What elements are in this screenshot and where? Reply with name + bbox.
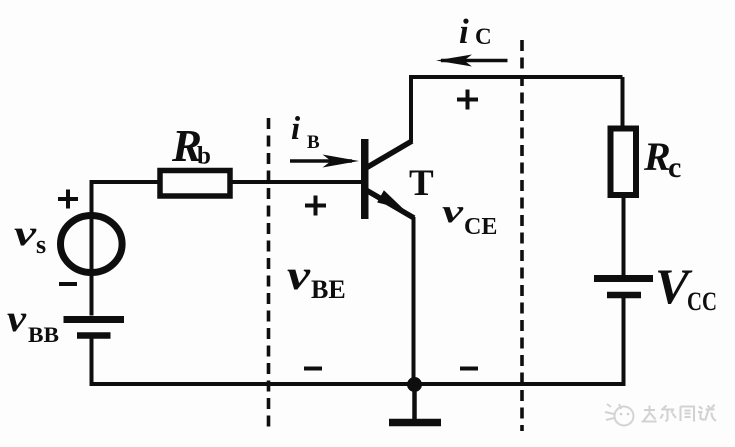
node junction dot: [407, 377, 422, 392]
minus sign vBE: [304, 367, 322, 371]
plus sign at vs top: [58, 197, 78, 201]
wire: base wire from Rb to base bar: [231, 180, 362, 184]
svg-text:v: v: [7, 298, 27, 340]
ground stem: [412, 384, 417, 420]
svg-text:b: b: [197, 143, 211, 170]
plus sign vBE: [305, 204, 326, 208]
watermark icon: [605, 404, 634, 426]
transistor Q1 emitter diagonal: [366, 190, 414, 218]
resistor Rc: [611, 129, 637, 196]
plus sign vCE: [457, 98, 478, 102]
svg-text:BE: BE: [311, 275, 346, 304]
current arrow iB shaft: [290, 159, 352, 163]
svg-text:R: R: [643, 134, 671, 179]
resistor Rb: [160, 171, 230, 197]
svg-text:i: i: [291, 111, 301, 147]
dashed boundary line right: [520, 40, 524, 431]
svg-text:T: T: [409, 163, 434, 204]
current arrow iC shaft: [441, 59, 508, 63]
battery VCC long plate: [594, 275, 653, 282]
wire: right vertical from top rail to Rc: [621, 77, 625, 129]
wire: Rc bottom to battery VCC: [622, 194, 626, 276]
wire: bottom rail: [90, 382, 624, 386]
wire: emitter vertical down to bottom rail: [412, 217, 416, 384]
transistor Q1 collector diagonal: [366, 141, 412, 168]
minus sign vCE: [460, 367, 478, 371]
dashed boundary line left: [267, 118, 271, 433]
svg-text:i: i: [459, 12, 469, 51]
svg-text:v: v: [14, 213, 37, 253]
wire: left vertical through source circle: [90, 180, 94, 316]
wire: base wire from source corner to Rb: [90, 180, 160, 184]
svg-text:B: B: [307, 132, 320, 153]
current arrow iC head: [436, 55, 472, 67]
minus sign below vs: [59, 282, 77, 286]
svg-text:BB: BB: [28, 322, 59, 347]
transistor Q1 base bar: [361, 139, 369, 219]
wire: top collector rail from collector corner to Rc top: [411, 75, 623, 79]
svg-text:CE: CE: [464, 214, 497, 240]
wire: collector vertical segment: [409, 75, 413, 142]
svg-text:C: C: [475, 24, 492, 49]
svg-text:s: s: [36, 230, 46, 259]
wire: left vertical below battery: [90, 337, 94, 386]
ground bar: [389, 419, 441, 427]
svg-text:c: c: [668, 151, 681, 184]
svg-text:v: v: [442, 194, 463, 230]
svg-text:CC: CC: [687, 287, 717, 316]
transistor Q1 emitter arrowhead: [377, 190, 404, 209]
battery VBB long plate: [64, 316, 125, 323]
source vs circle: [61, 216, 123, 273]
wire: VCC down to bottom rail: [622, 297, 626, 386]
current arrow iB head: [323, 155, 360, 168]
svg-text:v: v: [287, 253, 312, 299]
battery VCC short plate: [607, 292, 641, 299]
watermark text 达尔闻说 (approximated strokes): [642, 405, 717, 422]
battery VBB short plate: [77, 332, 111, 339]
